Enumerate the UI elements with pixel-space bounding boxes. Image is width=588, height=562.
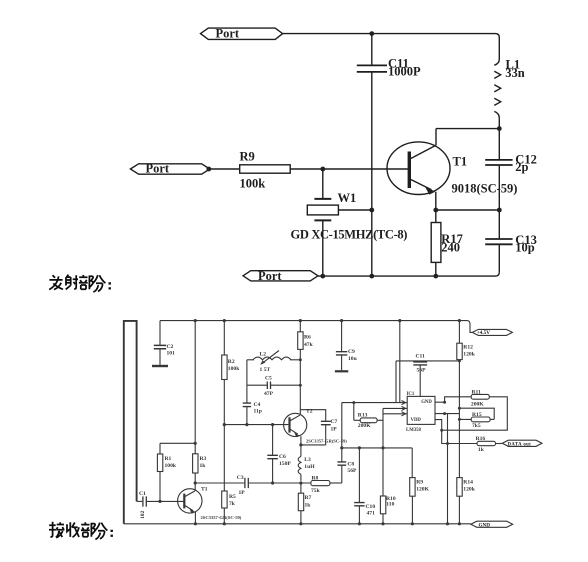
resistor R7 [300,483,302,493]
wire R13 right vertical [382,408,384,448]
svg-text:R14: R14 [463,480,473,486]
section label 发射部分： (transmitter part) [49,275,110,292]
capacitor C4 [243,403,251,407]
svg-text:L3: L3 [304,457,311,463]
wire bottom rail (receiver) [124,523,471,525]
capacitor C1 (series) [143,496,146,506]
resistor R12 [458,321,460,344]
node C6 base junction [271,423,274,426]
svg-text:Port: Port [146,162,170,176]
R13 loop left [353,403,355,421]
svg-text:1P: 1P [239,490,246,496]
svg-text:100k: 100k [240,177,266,191]
svg-text:200K: 200K [471,402,484,408]
wire crystal right to C11 branch [338,209,371,211]
svg-text:101: 101 [167,351,176,357]
wire right rail L1 to C12 [498,118,500,159]
node tank top right [299,358,302,361]
svg-text:T1: T1 [453,155,468,169]
capacitor C11 (receiver) [419,360,421,363]
svg-text:C5: C5 [265,376,272,382]
svg-text:56P: 56P [347,468,357,474]
svg-text:C8: C8 [347,462,354,468]
svg-text:1k: 1k [305,503,312,509]
svg-text:240: 240 [441,241,460,255]
svg-text:VDD: VDD [411,418,422,423]
svg-text:R16: R16 [476,436,486,442]
svg-text:75k: 75k [311,488,321,494]
svg-text:C2: C2 [167,344,174,350]
node right rail collector [497,126,502,131]
svg-text:W1: W1 [338,191,357,205]
inductor L2 (tank top) [247,351,300,365]
svg-text:1P: 1P [331,427,338,433]
svg-text:150P: 150P [279,461,291,467]
svg-text:+4.5V: +4.5V [477,330,490,336]
node crystal-right junction [369,208,374,213]
resistor R5 [222,491,227,508]
wire right rail C13 to bottom [498,245,500,273]
port DATA out [502,440,542,446]
svg-text:2SC3357-GR(SC-59): 2SC3357-GR(SC-59) [306,439,347,444]
node R1-top junction [194,442,197,445]
IC right pin (mid) [435,413,459,415]
svg-text:120K: 120K [416,487,429,493]
svg-text:C11: C11 [416,354,426,360]
wire collector rail x=195 [194,321,196,454]
wire C1 to base [147,500,184,502]
svg-text:R3: R3 [200,456,207,462]
svg-text:11p: 11p [254,409,262,415]
node emitter junction T2 [299,443,302,446]
svg-text:7k: 7k [229,501,236,507]
node bottom rail R17 [433,274,438,279]
resistor R8 [311,481,330,486]
port +4.5V [472,329,512,335]
svg-text:47P: 47P [264,391,274,397]
wire bottom rail [318,272,499,276]
node base/crystal junction [320,167,325,172]
resistor R17 [431,223,441,263]
wire crystal top [322,169,324,199]
svg-text:471: 471 [367,511,376,517]
ground (C9) [335,370,348,372]
svg-text:R15: R15 [472,412,482,418]
svg-text:R5: R5 [229,494,236,500]
port GND [471,521,513,527]
svg-text:DATA out: DATA out [508,442,532,447]
node R12 bottom [458,359,461,362]
svg-text:7k5: 7k5 [472,423,481,429]
svg-text:1k: 1k [200,463,207,469]
wire right rail C12 to C13 [498,165,500,239]
wire R1 top [160,442,195,444]
svg-text:R7: R7 [305,495,312,501]
node collector/C3-wire junction [194,481,197,484]
svg-text:L2: L2 [260,352,267,358]
wire R16 to DATA port [496,443,503,445]
wire emitter to R17 [435,210,437,223]
svg-text:R6: R6 [304,335,311,341]
node tank bottom right [299,384,302,387]
capacitor C12 [485,160,512,165]
wire T2 emitter down [300,436,302,445]
capacitor C7 [321,421,331,424]
wire R9 to base [290,168,409,170]
node T2 base wire left [223,423,226,426]
ground (C2) [152,365,168,367]
capacitor C8 branch [341,466,343,483]
capacitor C2 branch [159,321,161,345]
resistor R9 (receiver) [411,448,413,478]
svg-text:1000P: 1000P [388,65,421,79]
node bottom rail crystal [320,274,325,279]
capacitor C6 branch [272,425,274,456]
svg-text:1uH: 1uH [304,464,315,470]
svg-text:R9: R9 [416,480,423,486]
inductor L1 [494,59,500,118]
node bottom rail dots [194,522,197,525]
capacitor C5 [267,382,270,390]
wire C7 jog [300,410,325,421]
svg-text:R2: R2 [228,359,235,365]
svg-text:47k: 47k [304,342,314,348]
wire T1 emitter down [435,192,437,210]
resistor R11 [471,394,489,399]
svg-text:C6: C6 [279,454,286,460]
receiver labels [139,330,531,528]
wire collector rail [436,128,499,130]
node L3 bottom junction [299,481,302,484]
wire emitter to C7 [301,444,326,446]
pin chevrons [402,401,406,416]
wire comparator output vertical [447,414,449,524]
wire R8 to C8 branch [330,482,342,484]
resistor R9 [240,165,291,173]
svg-text:1 5T: 1 5T [260,367,271,373]
antenna loop [124,321,137,524]
port P1 (top Port) [201,28,283,39]
svg-text:100k: 100k [165,463,177,469]
tank left side [246,360,248,403]
svg-text:GD XC-15MHZ(TC-8): GD XC-15MHZ(TC-8) [291,228,408,242]
svg-text:R11: R11 [472,390,482,396]
svg-text:GND: GND [479,522,491,528]
node C4 base junction [245,423,248,426]
tank bottom wire left [247,384,267,386]
capacitor C10 [358,448,360,502]
transistor T2 [284,413,307,437]
transmitter labels [146,27,537,283]
wire R11 right loop [435,397,507,430]
resistor R13 [354,419,360,421]
svg-text:C1: C1 [139,491,146,497]
port P2 (left Port) [130,164,209,174]
svg-text:R1: R1 [165,456,172,462]
node top-rail / C11 junction [369,31,374,36]
wire C9 branch [341,321,343,352]
node wire B / C8 [340,446,343,449]
wire emitter rail [436,209,500,211]
wire R17 to bottom rail [435,262,437,276]
svg-text:33n: 33n [505,66,525,80]
wire crystal bottom [322,220,324,276]
svg-text:LM358: LM358 [406,428,422,433]
svg-text:110: 110 [386,502,394,508]
pin stub 2 [383,407,407,409]
wire port2 to R9 [210,168,240,170]
svg-text:T2: T2 [306,409,313,415]
wire R6 to T2 collector [299,349,301,414]
wire to R11 [445,397,472,402]
wire B (comparator input) [342,447,412,449]
svg-text:120k: 120k [463,352,475,358]
resistor R2 on x=224 [223,321,225,355]
wire top rail [283,34,500,59]
node emitter junction [433,208,438,213]
svg-text:200K: 200K [358,423,371,429]
resistor R14 [457,478,462,497]
svg-text:R12: R12 [463,345,473,351]
section label 接收部分： (receiver part) [49,522,112,540]
tank bottom wire right [271,384,300,386]
svg-text:C9: C9 [348,349,355,355]
wire y483 from collector junction [195,482,244,484]
resistor R15 [471,417,490,422]
wire base from antenna [137,500,143,502]
node wire B / C10 [358,446,361,449]
wire top rail (receiver) [160,321,472,333]
resistor R1 [159,443,161,454]
svg-text:C3: C3 [237,475,244,481]
node bottom rail C11 [369,274,374,279]
svg-text:102: 102 [140,510,146,519]
wire C11 branch lower [371,73,373,277]
svg-text:10u: 10u [348,356,357,362]
svg-text:1k: 1k [478,447,485,453]
inductor L3 [298,445,301,481]
wire C11 branch upper [371,34,373,66]
wire pin1 into IC [342,402,407,404]
wire from top rail down [399,321,401,403]
svg-text:56P: 56P [417,368,427,374]
node wire B / R10 [381,446,384,449]
wire T2 base [224,424,288,426]
IC U1 LM358 box [407,396,435,424]
svg-text:R13: R13 [358,413,368,419]
node top rail dots [194,319,197,322]
node base-wire left dot [206,167,211,172]
crystal W1 [307,199,338,221]
transistor T1 (receiver) [178,489,202,514]
svg-text:10p: 10p [515,241,535,255]
svg-text:100k: 100k [228,366,240,372]
port P3 (bottom Port) [243,271,318,281]
svg-text:R8: R8 [312,476,319,482]
wire C3 to R8 [249,482,311,484]
wire from C11 net down [395,361,397,403]
resistor R6 [299,321,301,332]
node loop corner [440,429,443,432]
capacitor C13 [485,239,512,244]
IC right pin (top) [435,401,445,403]
node R1/base junction [158,500,161,503]
svg-text:9018(SC-59): 9018(SC-59) [452,182,518,196]
wire T1 collector up [435,129,437,146]
wire C11 row [396,360,459,362]
svg-text:120k: 120k [463,487,475,493]
svg-text:Port: Port [216,27,240,41]
node right rail emitter [497,208,502,213]
svg-text:IC1: IC1 [407,392,415,397]
svg-text:C10: C10 [366,504,376,510]
wire to R16 [442,430,477,443]
R15 loop [459,408,494,419]
svg-text:Port: Port [258,269,282,283]
resistor R16 [477,441,496,445]
svg-text:2p: 2p [515,160,528,174]
svg-text:T1: T1 [201,487,208,493]
capacitor C11 [357,65,387,72]
pin stub 3 [383,413,407,415]
svg-text:GND: GND [421,400,432,405]
wire C7 to emitter line [325,425,327,445]
svg-text:R9: R9 [240,150,255,164]
svg-text:C4: C4 [254,402,261,408]
svg-text:2SC3357-GR(SC-59): 2SC3357-GR(SC-59) [201,515,242,520]
wire T1 emitter to rail [194,512,196,524]
node C6 bottom junction [271,481,274,484]
resistor R10 [382,448,384,496]
svg-text:C7: C7 [331,419,338,425]
capacitor C3 [245,478,248,488]
resistor R3 [193,454,198,473]
transistor T1 [387,142,450,195]
